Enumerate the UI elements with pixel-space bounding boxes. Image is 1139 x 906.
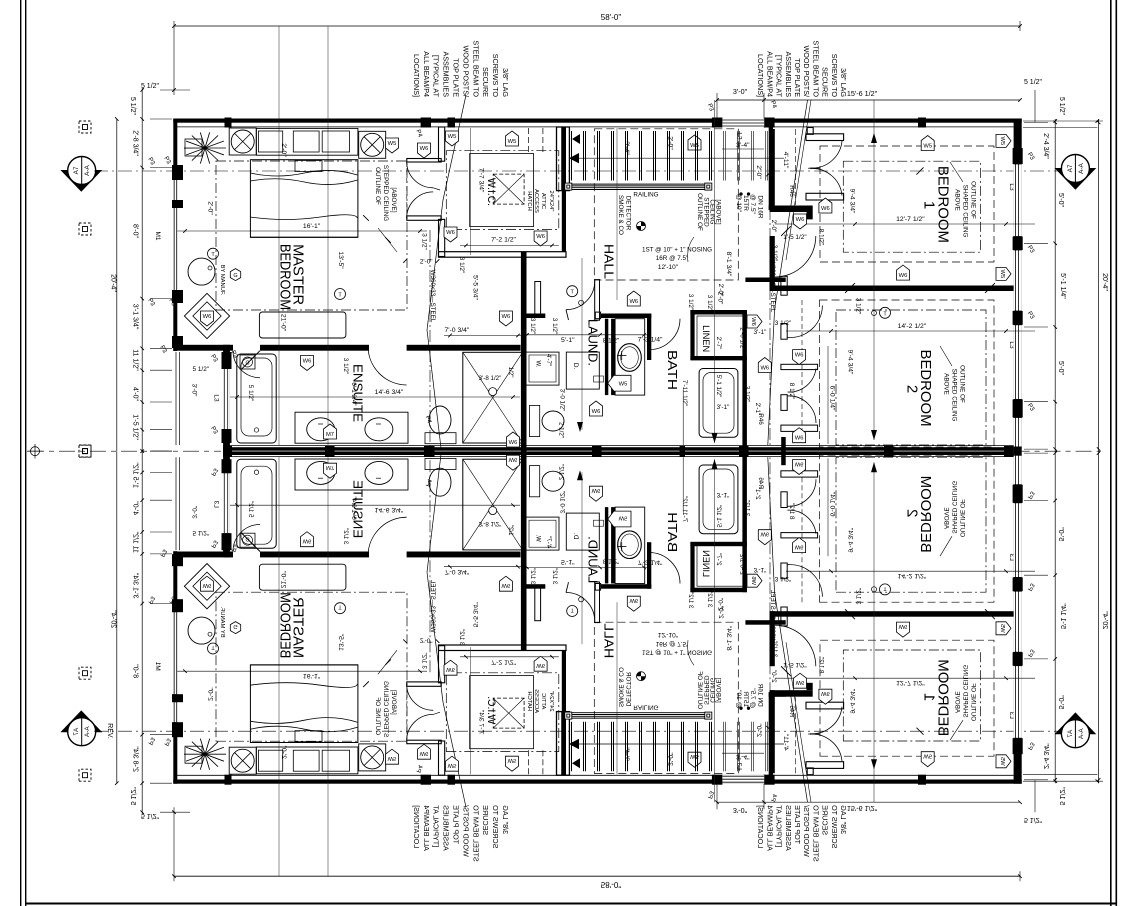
svg-text:SECURE: SECURE	[821, 67, 830, 97]
svg-text:M7: M7	[326, 432, 334, 438]
svg-text:3'-1": 3'-1"	[717, 404, 730, 411]
svg-text:STEPPED CEILING: STEPPED CEILING	[382, 165, 389, 221]
svg-text:3 1/2": 3 1/2"	[855, 298, 862, 314]
ceiling fans	[229, 128, 256, 155]
svg-text:R46: R46	[757, 413, 764, 425]
svg-text:R46: R46	[788, 185, 795, 197]
svg-text:W5: W5	[999, 137, 1005, 146]
dresser	[256, 128, 358, 155]
svg-text:W6: W6	[629, 299, 638, 305]
svg-text:5 1/2": 5 1/2"	[193, 366, 209, 373]
svg-text:L3: L3	[736, 132, 743, 140]
svg-text:58'-0": 58'-0"	[601, 13, 622, 22]
svg-text:W6: W6	[795, 436, 804, 442]
center line	[28, 450, 221, 452]
svg-text:[TYPICAL AT: [TYPICAL AT	[775, 55, 784, 98]
plant	[205, 147, 226, 149]
railing	[566, 183, 711, 185]
svg-text:SHAPED CEILING: SHAPED CEILING	[951, 369, 958, 422]
bedroom2 doors	[788, 306, 823, 338]
svg-text:4'-11": 4'-11"	[782, 152, 789, 169]
svg-text:G: G	[245, 361, 249, 367]
svg-text:M1: M1	[154, 231, 161, 240]
svg-text:W5: W5	[448, 134, 457, 140]
svg-text:BATH: BATH	[665, 350, 680, 390]
svg-text:2'-0": 2'-0"	[770, 220, 777, 233]
svg-text:BY MANUF.: BY MANUF.	[219, 265, 225, 296]
svg-text:1/2": 1/2"	[507, 367, 514, 378]
svg-text:8 1/2": 8 1/2"	[603, 338, 619, 345]
svg-text:ALL BEAM/P4: ALL BEAM/P4	[422, 51, 431, 97]
svg-text:LOCATIONS]: LOCATIONS]	[756, 54, 765, 97]
svg-text:2: 2	[904, 385, 921, 393]
svg-text:15'-6 1/2": 15'-6 1/2"	[847, 89, 878, 98]
bath tub	[699, 369, 738, 438]
svg-text:2'-7": 2'-7"	[715, 337, 722, 350]
svg-text:W6: W6	[509, 440, 518, 446]
svg-text:ALL BEAM/P4: ALL BEAM/P4	[765, 51, 774, 97]
svg-text:D.: D.	[572, 363, 579, 370]
svg-text:3 1/2": 3 1/2"	[529, 318, 536, 334]
svg-text:SHAPED CEILING: SHAPED CEILING	[962, 185, 969, 238]
svg-text:2'-0": 2'-0"	[420, 259, 433, 266]
svg-text:WOOD POSTS/: WOOD POSTS/	[461, 45, 470, 97]
svg-text:[ABOVE]: [ABOVE]	[390, 187, 397, 212]
svg-text:3 1/2": 3 1/2"	[771, 245, 778, 261]
svg-text:5'-0": 5'-0"	[1057, 193, 1064, 207]
svg-text:3 1/2": 3 1/2"	[743, 386, 750, 402]
svg-text:HATCH: HATCH	[526, 191, 532, 211]
svg-text:A7: A7	[73, 166, 80, 174]
registration marks	[79, 121, 91, 133]
svg-text:STEEL BEAM TO: STEEL BEAM TO	[471, 40, 480, 97]
svg-text:2'-0": 2'-0"	[755, 165, 762, 179]
svg-text:WOOD POSTS/: WOOD POSTS/	[802, 45, 811, 97]
svg-text:2'-0": 2'-0"	[207, 201, 214, 215]
svg-text:SCREWS TO: SCREWS TO	[830, 54, 839, 98]
svg-text:W6: W6	[760, 366, 769, 372]
svg-text:1'-5 1/2": 1'-5 1/2"	[783, 234, 806, 241]
svg-text:9'-4 3/4": 9'-4 3/4"	[849, 189, 856, 214]
svg-text:LOCATIONS]: LOCATIONS]	[412, 54, 421, 97]
svg-text:W6: W6	[203, 314, 212, 320]
svg-text:A7: A7	[1067, 164, 1074, 172]
svg-text:SMOKE & CO: SMOKE & CO	[617, 195, 624, 235]
bedroom1 entry door	[775, 236, 816, 277]
bedroom1 entry double doors	[810, 141, 842, 168]
bed	[250, 160, 358, 238]
svg-text:DETECTOR: DETECTOR	[625, 196, 632, 231]
svg-text:4'-0": 4'-0"	[132, 387, 139, 401]
ensuite vanity	[295, 412, 408, 443]
section marker A-A left	[60, 170, 102, 192]
svg-text:TOP PLATE: TOP PLATE	[793, 58, 802, 97]
svg-text:14'-6 3/4": 14'-6 3/4"	[375, 389, 404, 396]
svg-text:3'-0 1/2": 3'-0 1/2"	[559, 389, 566, 412]
svg-text:13'-5": 13'-5"	[337, 251, 344, 269]
ensuite tub	[237, 354, 276, 443]
svg-text:W.: W.	[534, 361, 540, 368]
svg-text:21'-0": 21'-0"	[280, 314, 287, 332]
svg-text:8 1/2": 8 1/2"	[788, 383, 795, 399]
svg-text:W6: W6	[795, 353, 804, 359]
interior walls	[407, 159, 441, 163]
svg-text:3'-8 1/2": 3'-8 1/2"	[479, 375, 502, 382]
svg-text:OUTLINE OF: OUTLINE OF	[374, 167, 381, 205]
page border left	[20, 0, 21, 906]
svg-text:W6: W6	[536, 234, 545, 240]
svg-text:W6: W6	[750, 317, 756, 326]
svg-text:ABOVE: ABOVE	[943, 373, 950, 395]
chair and corner unit	[188, 258, 215, 285]
svg-text:14'-2 1/2": 14'-2 1/2"	[898, 323, 927, 330]
svg-text:5'-1 1/4": 5'-1 1/4"	[1059, 273, 1066, 299]
svg-text:2'-0 1/2": 2'-0 1/2"	[738, 327, 745, 350]
svg-text:W6: W6	[420, 146, 429, 152]
svg-text:W5: W5	[999, 270, 1005, 279]
svg-text:ACCESS: ACCESS	[533, 189, 539, 213]
svg-text:20'-4": 20'-4"	[110, 274, 117, 292]
svg-text:A-A: A-A	[84, 164, 91, 175]
svg-text:G: G	[233, 273, 237, 279]
svg-text:LINEN: LINEN	[701, 325, 711, 352]
master entry doors	[407, 161, 434, 188]
svg-text:8 1/2": 8 1/2"	[817, 229, 824, 245]
svg-text:5'-5 3/4": 5'-5 3/4"	[472, 275, 479, 300]
svg-text:4'-7": 4'-7"	[545, 354, 552, 366]
svg-text:8'-1 3/4": 8'-1 3/4"	[725, 252, 732, 277]
outer walls	[173, 119, 1021, 123]
svg-text:7'-3 1/4": 7'-3 1/4"	[638, 337, 663, 344]
centerline symbol left edge	[31, 447, 40, 456]
svg-text:24"X24": 24"X24"	[548, 191, 554, 212]
svg-text:1: 1	[921, 201, 938, 209]
svg-text:W6: W6	[446, 230, 455, 236]
left dim stack	[116, 119, 118, 451]
leaders	[443, 95, 466, 200]
svg-text:TOP PLATE: TOP PLATE	[452, 58, 461, 97]
svg-text:2'-4 3/4": 2'-4 3/4"	[1042, 133, 1049, 159]
svg-text:3 1/2": 3 1/2"	[458, 257, 465, 273]
svg-text:L3: L3	[213, 394, 220, 402]
svg-text:5'-1": 5'-1"	[561, 337, 575, 344]
svg-text:ATTIC: ATTIC	[540, 193, 546, 209]
svg-text:9'-4 3/4": 9'-4 3/4"	[846, 350, 853, 375]
svg-text:20'-4": 20'-4"	[1101, 273, 1108, 291]
svg-text:ASSEMBLIES: ASSEMBLIES	[784, 51, 793, 97]
extension lines	[278, 26, 280, 445]
svg-text:6'-1 3/4": 6'-1 3/4"	[350, 382, 357, 405]
svg-text:W5: W5	[923, 144, 932, 150]
svg-text:W6: W6	[796, 217, 805, 223]
svg-text:W6: W6	[899, 273, 908, 279]
svg-text:OUTLINE OF: OUTLINE OF	[959, 365, 966, 403]
svg-text:[ABOVE]: [ABOVE]	[715, 199, 722, 224]
svg-text:W5: W5	[388, 141, 397, 147]
stairs	[557, 127, 570, 191]
svg-text:7'-2 1/2": 7'-2 1/2"	[491, 237, 516, 244]
svg-text:3/8" LAG: 3/8" LAG	[501, 68, 510, 97]
svg-text:ABOVE: ABOVE	[954, 189, 961, 211]
page border right	[1110, 0, 1112, 906]
svg-text:DN 16R: DN 16R	[757, 195, 764, 218]
svg-text:3 1/2": 3 1/2"	[687, 294, 694, 310]
ceiling outlines	[216, 161, 407, 310]
svg-text:STEEL BEAM TO: STEEL BEAM TO	[811, 40, 820, 97]
svg-text:3 1/2": 3 1/2"	[775, 320, 791, 327]
bath toilet	[530, 405, 540, 436]
top secondary dims	[717, 99, 1020, 101]
svg-text:W360x33—STEEL: W360x33—STEEL	[769, 260, 776, 313]
party wall	[223, 447, 1014, 450]
svg-text:3 1/2": 3 1/2"	[706, 295, 713, 311]
svg-text:W360x33—STEEL: W360x33—STEEL	[429, 270, 436, 323]
svg-text:3'-4": 3'-4"	[623, 141, 630, 155]
right dim stack	[1054, 119, 1056, 451]
svg-text:8'-0": 8'-0"	[132, 224, 139, 238]
svg-text:LAUND.: LAUND.	[586, 319, 601, 366]
svg-text:W5: W5	[508, 139, 517, 145]
section marker A-A right	[1055, 168, 1097, 190]
svg-text:STEPPED: STEPPED	[703, 197, 710, 227]
svg-text:2'-0": 2'-0"	[280, 143, 287, 157]
svg-text:3/8" LAG: 3/8" LAG	[839, 68, 848, 97]
svg-text:SECURE: SECURE	[481, 67, 490, 97]
svg-text:3'-1 3/4": 3'-1 3/4"	[132, 304, 139, 330]
svg-text:2'-0": 2'-0"	[717, 284, 724, 297]
svg-text:W6: W6	[303, 359, 312, 365]
ensuite G box	[240, 355, 255, 369]
svg-text:SCREWS TO: SCREWS TO	[491, 54, 500, 98]
svg-text:12'-10": 12'-10"	[658, 264, 679, 271]
svg-text:3'-1": 3'-1"	[754, 329, 767, 336]
svg-text:1'-5 1/2": 1'-5 1/2"	[132, 414, 139, 440]
svg-text:A-A: A-A	[1078, 162, 1085, 173]
svg-text:3'-0": 3'-0"	[733, 87, 748, 96]
svg-text:W6: W6	[502, 314, 511, 320]
svg-text:ASSEMBLIES: ASSEMBLIES	[442, 51, 451, 97]
svg-text:1ST @ 10" + 1" NOSING: 1ST @ 10" + 1" NOSING	[642, 247, 712, 254]
svg-text:12'-7 1/2": 12'-7 1/2"	[896, 216, 925, 223]
svg-text:2 1/2": 2 1/2"	[558, 422, 565, 438]
svg-text:7'-7 3/4": 7'-7 3/4"	[478, 168, 485, 193]
svg-text:5'-1 1/2": 5'-1 1/2"	[715, 375, 722, 398]
svg-text:RAILING: RAILING	[633, 192, 658, 199]
ensuite toilet	[425, 433, 456, 444]
svg-text:5 1/2": 5 1/2"	[1024, 79, 1043, 86]
svg-text:W6: W6	[821, 206, 830, 212]
svg-text:16R @ 7.5": 16R @ 7.5"	[656, 255, 688, 262]
attic hatch	[493, 174, 524, 204]
svg-text:[TYPICAL AT: [TYPICAL AT	[432, 55, 441, 98]
svg-text:3 1/2": 3 1/2"	[421, 233, 428, 249]
svg-text:REV.: REV.	[106, 723, 113, 739]
svg-text:7'-11 1/2": 7'-11 1/2"	[681, 380, 688, 406]
svg-text:11 1/2": 11 1/2"	[132, 349, 139, 371]
svg-text:3'-0": 3'-0"	[190, 384, 197, 397]
wall posts	[225, 118, 232, 128]
svg-text:W6: W6	[592, 409, 601, 415]
svg-text:5'-0": 5'-0"	[1057, 361, 1064, 375]
svg-text:7'-0 3/4": 7'-0 3/4"	[444, 327, 469, 334]
svg-text:16'-1": 16'-1"	[303, 223, 321, 230]
svg-text:OUTLINE OF: OUTLINE OF	[970, 181, 977, 219]
svg-text:HALL: HALL	[601, 244, 616, 279]
page border bottom	[25, 903, 1117, 905]
svg-text:2'-0": 2'-0"	[667, 136, 674, 150]
svg-text:5 1/2": 5 1/2"	[247, 385, 254, 401]
svg-text:6'-0 1/4": 6'-0 1/4"	[828, 386, 835, 411]
top overall dimension	[174, 25, 1020, 27]
ensuite door	[368, 346, 407, 385]
master-ensuite door	[233, 351, 260, 378]
svg-text:W5: W5	[619, 382, 628, 388]
shower	[463, 352, 523, 443]
svg-text:5 1/2": 5 1/2"	[129, 97, 136, 116]
svg-text:3 1/2": 3 1/2"	[551, 318, 558, 334]
svg-text:BEDROOM: BEDROOM	[277, 244, 294, 310]
svg-text:3 1/2": 3 1/2"	[342, 358, 349, 374]
svg-text:W.I.C.: W.I.C.	[485, 178, 497, 206]
svg-text:@ 7.5": @ 7.5"	[749, 194, 756, 214]
svg-text:OUTLINE OF: OUTLINE OF	[696, 193, 703, 231]
svg-text:2'-8 3/4": 2'-8 3/4"	[132, 130, 139, 156]
svg-text:5 1/2": 5 1/2"	[1058, 97, 1065, 116]
